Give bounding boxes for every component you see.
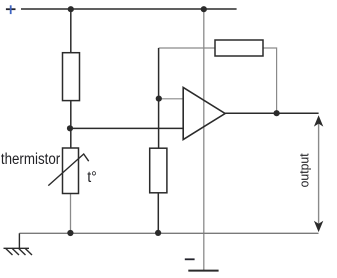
junction dot inverting input node bbox=[156, 96, 162, 102]
wire R3 bottom to ground rail bbox=[157, 193, 159, 234]
output measurement arrow shaft bbox=[318, 118, 320, 229]
minus supply label bbox=[185, 258, 195, 260]
wire R1 bottom to thermistor node bbox=[70, 101, 72, 148]
junction dot thermistor / ground rail bbox=[67, 230, 73, 236]
junction dot R3 / ground rail bbox=[155, 230, 161, 236]
wire op-amp output bbox=[225, 112, 319, 114]
svg-text:output: output bbox=[297, 153, 312, 187]
svg-text:t°: t° bbox=[87, 169, 97, 186]
junction dot thermistor node bbox=[67, 125, 73, 131]
top positive rail wire bbox=[21, 8, 237, 10]
wire thermistor bottom to ground rail bbox=[70, 194, 72, 234]
bottom ground rail wire bbox=[19, 232, 318, 234]
wire inverting input bbox=[159, 98, 183, 100]
+ supply label bbox=[6, 5, 16, 14]
wire R2 right to output node bbox=[263, 48, 277, 113]
wire op-amp supply vertical (top rail to ground symbol) bbox=[203, 9, 205, 270]
resistor R2 feedback bbox=[215, 40, 263, 56]
wire non-inverting input bbox=[70, 127, 183, 129]
junction dot top rail / R1 bbox=[68, 6, 74, 12]
junction dot output node bbox=[274, 110, 280, 116]
wire feedback left horizontal bbox=[159, 47, 215, 49]
svg-text:thermistor: thermistor bbox=[1, 151, 60, 168]
thermistor TH1 body bbox=[63, 148, 79, 194]
earth chassis symbol (bottom left) bbox=[4, 233, 33, 255]
output arrow head top bbox=[314, 115, 323, 126]
ground symbol bar bbox=[188, 270, 218, 272]
junction dot top rail / supply line bbox=[201, 6, 207, 12]
op-amp U1 bbox=[183, 88, 225, 140]
wire inverting branch vertical bbox=[158, 48, 160, 148]
resistor R3 bbox=[150, 148, 167, 193]
wire top rail to R1 bbox=[70, 9, 72, 53]
output arrow head bottom bbox=[314, 221, 323, 232]
resistor R1 bbox=[63, 53, 80, 101]
thermistor diagonal stroke bbox=[48, 154, 88, 186]
